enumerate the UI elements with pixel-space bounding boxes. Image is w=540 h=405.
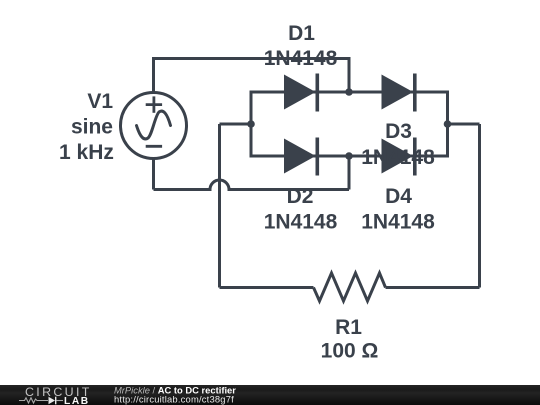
diode D3 (382, 74, 417, 112)
wire left node stub (220, 123, 252, 126)
wire resistor right to corner (386, 286, 480, 289)
svg-text:http://circuitlab.com/ct38g7f: http://circuitlab.com/ct38g7f (114, 394, 234, 405)
voltage source V1 circle (121, 93, 187, 159)
node dot left (247, 120, 255, 128)
diode D4 (382, 138, 417, 176)
svg-text:V1: V1 (87, 90, 113, 113)
wire rise to D2/D4 node (348, 154, 351, 190)
svg-text:1N4148: 1N4148 (264, 210, 338, 233)
wire D2 row (251, 155, 349, 158)
resistor R1 zigzag (314, 273, 386, 301)
svg-text:D3: D3 (385, 120, 412, 143)
svg-text:R1: R1 (335, 316, 362, 339)
V1 minus sign (146, 145, 162, 148)
V1 sine wave (137, 111, 171, 139)
diode D1 (284, 74, 319, 112)
svg-text:D2: D2 (287, 185, 314, 208)
svg-text:1N4148: 1N4148 (361, 210, 435, 233)
wire left drop to resistor (218, 124, 221, 288)
wire V1 bottom with hop (154, 180, 350, 190)
wire right node stub (448, 123, 480, 126)
wire V1 top to D1/D3 node (154, 59, 350, 94)
footer bar (0, 385, 540, 405)
svg-text:LAB: LAB (64, 396, 90, 405)
svg-text:sine: sine (71, 116, 113, 139)
wire right riser (478, 124, 481, 288)
svg-text:D1: D1 (288, 22, 315, 45)
wire D4 row (349, 155, 448, 158)
svg-text:1 kHz: 1 kHz (59, 141, 114, 164)
logo mini diode (49, 397, 57, 405)
svg-text:D4: D4 (385, 185, 412, 208)
svg-text:100 Ω: 100 Ω (321, 340, 379, 363)
node dot D2-D4 (345, 152, 353, 160)
wire left bridge vertical (250, 91, 253, 158)
wire D1 row (251, 91, 349, 94)
diode D2 (284, 138, 319, 176)
wire D3 row (349, 91, 448, 94)
V1 plus sign (146, 96, 162, 112)
logo mini wire + resistor + diode (19, 398, 48, 403)
node dot right (444, 120, 452, 128)
wire right bridge vertical (446, 91, 449, 158)
wire bottom left to resistor (220, 286, 314, 289)
svg-text:1N4148: 1N4148 (264, 47, 338, 70)
svg-text:1N4148: 1N4148 (361, 146, 435, 169)
node dot D1-D3 (345, 88, 353, 96)
wire V1 bottom lead (152, 158, 155, 190)
